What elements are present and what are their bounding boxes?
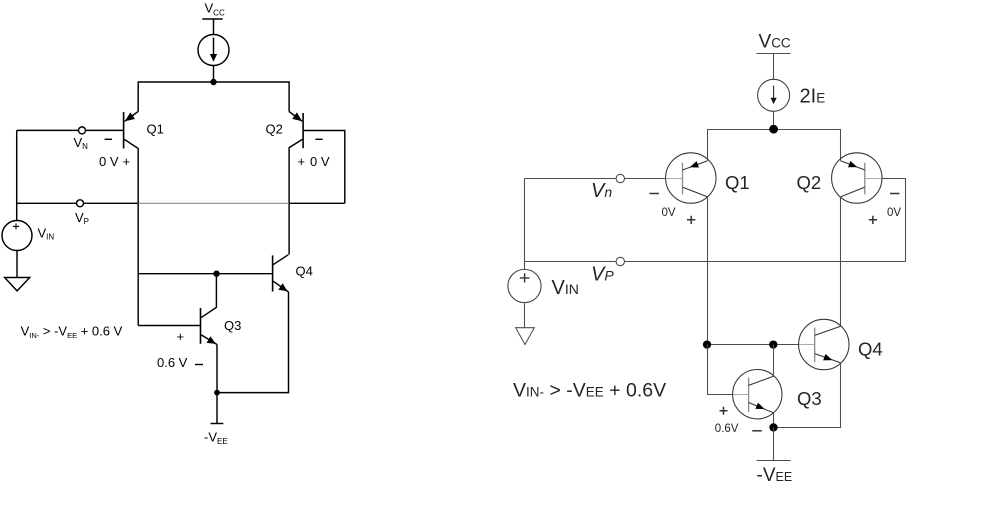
label VIN (right): [552, 277, 579, 299]
node: Q3 collector junction dot: [769, 340, 777, 348]
svg-text:VCC: VCC: [759, 32, 791, 53]
wire: mid rail to Q4 base: [138, 273, 272, 275]
current source 2IE: [758, 79, 790, 111]
label Vn: [591, 180, 612, 202]
svg-text:Q1: Q1: [147, 122, 164, 137]
voltage source VIN (left): [2, 221, 32, 251]
svg-text:0.6V: 0.6V: [715, 423, 739, 435]
transistor Q4 (right): [799, 319, 849, 369]
node VP terminal (right): [616, 257, 624, 265]
label minus (Q3 right): [752, 430, 762, 432]
transistor Q3 (right): [733, 370, 782, 419]
svg-text:0.6 V: 0.6 V: [157, 355, 188, 370]
svg-text:+: +: [298, 154, 306, 169]
label Q4 (right): [858, 339, 883, 360]
node VN terminal: [79, 127, 86, 134]
label VP: [75, 210, 89, 226]
svg-text:0 V: 0 V: [310, 154, 330, 169]
value label 2IE: [800, 86, 826, 108]
node: emitter junction dot: [214, 390, 220, 396]
wire: VP rail (left part): [17, 202, 139, 204]
constraint text (left): [21, 323, 123, 340]
wire: VP rail (right): [525, 261, 906, 263]
wire: current source to tail node: [213, 66, 215, 83]
label minus (Q1 base): [105, 138, 112, 140]
node: bottom junction dot (right): [769, 423, 777, 431]
label VIN (left): [38, 225, 55, 241]
wire: source to tail node: [773, 111, 775, 129]
voltage source VIN (right): [508, 269, 541, 302]
label -VEE (left): [204, 430, 228, 447]
label minus (Q1 right): [650, 193, 660, 195]
wire: Q1 collector run (right): [707, 197, 709, 345]
node VP terminal: [77, 200, 84, 207]
label plus (Q3): [177, 329, 185, 344]
svg-text:Q2: Q2: [266, 122, 283, 137]
ground (left): [5, 278, 30, 291]
wire: Q2 base to right edge: [882, 179, 906, 262]
wire: down to Q3 base: [708, 345, 733, 395]
svg-text:0V: 0V: [887, 207, 901, 219]
wire: Q4 emitter return (right): [774, 363, 841, 428]
svg-text:Q4: Q4: [858, 339, 883, 360]
wire: Vn column: [524, 179, 526, 270]
transistor Q2: [289, 112, 303, 255]
power symbol -VEE (left): [211, 423, 224, 425]
svg-text:Q2: Q2: [797, 172, 822, 193]
label Q1 (right): [725, 172, 750, 193]
wire: Q3 collector to junction: [773, 345, 775, 377]
svg-text:+: +: [177, 329, 185, 344]
label VCC (left): [205, 0, 225, 17]
value label 0.6 V (Q3): [157, 355, 188, 370]
label minus (Q2 base): [315, 138, 322, 140]
wire: emitter rail Q1-Q2: [138, 82, 289, 112]
ground (right): [516, 328, 535, 345]
node: tail junction dot (right): [769, 125, 778, 134]
svg-text:Q3: Q3: [224, 318, 241, 333]
wire: Vn lead: [525, 178, 667, 180]
constraint text (right): [513, 380, 666, 402]
svg-text:VIN: VIN: [552, 277, 579, 299]
label plus (Q3 right): [720, 407, 728, 415]
wire: Q1 collector run: [137, 204, 139, 326]
power symbol VCC (left): [202, 19, 222, 35]
label plus (Q2 right): [869, 216, 877, 224]
label VN: [74, 135, 89, 151]
value label 0V (Q2 right): [887, 207, 901, 219]
power symbol -VEE (right): [757, 460, 791, 462]
transistor Q1: [124, 112, 139, 204]
svg-text:Q3: Q3: [797, 388, 822, 409]
svg-text:0 V: 0 V: [99, 154, 119, 169]
svg-text:0V: 0V: [662, 207, 676, 219]
transistor Q2 (right): [832, 153, 882, 203]
svg-text:Q1: Q1: [725, 172, 750, 193]
wire: VP rail (gray middle part): [138, 202, 289, 204]
wire: VN column to VIN: [16, 130, 18, 220]
wire: mid rail to Q4 base: [708, 344, 799, 346]
node: tail junction dot: [210, 79, 216, 85]
label Q4: [296, 264, 313, 279]
node Vn terminal (right): [616, 174, 624, 182]
label Q1: [147, 122, 164, 137]
wire: bottom node to -VEE: [773, 428, 775, 461]
label VP (right): [591, 264, 614, 286]
label minus (Q2 right): [890, 193, 899, 195]
svg-text:+: +: [123, 154, 131, 169]
wire: VN lead: [17, 129, 124, 131]
current source I1 (left): [198, 35, 229, 66]
transistor Q3: [138, 274, 217, 345]
svg-text:VP: VP: [591, 264, 614, 286]
wire: emitter rail Q1-Q2 (right): [708, 130, 841, 161]
wire: VIN to ground: [16, 251, 18, 278]
label -VEE (right): [757, 465, 793, 486]
label Q3: [224, 318, 241, 333]
label Q3 (right): [797, 388, 822, 409]
wire: Q3 emitter to -VEE: [216, 345, 218, 424]
label plus (Q1 right): [687, 216, 695, 224]
wire: Q3 emitter to bottom node: [773, 413, 775, 428]
node: Q3 collector junction: [213, 271, 219, 277]
wire: VIN to ground (right): [524, 303, 526, 328]
value label + 0 V (Q2): [298, 154, 330, 169]
value label 0.6V (Q3 right): [715, 423, 739, 435]
svg-text:Vn: Vn: [591, 180, 612, 202]
wire: Q2 base to right rail: [303, 131, 345, 204]
label minus (Q3): [195, 364, 203, 366]
transistor Q4: [273, 255, 289, 292]
label VCC (right): [759, 32, 791, 53]
label Q2: [266, 122, 283, 137]
power symbol VCC (right): [757, 54, 791, 80]
value label 0 V + (Q1): [99, 154, 130, 169]
node: Q1 collector junction dot: [703, 340, 711, 348]
transistor Q1 (right): [666, 153, 716, 203]
svg-text:Q4: Q4: [296, 264, 313, 279]
value label 0V (Q1 right): [662, 207, 676, 219]
wire: VP rail (right part): [289, 202, 345, 204]
label Q2 (right): [797, 172, 822, 193]
wire: Q4 emitter return: [217, 292, 289, 393]
wire: Q2 collector run (right): [840, 197, 842, 326]
